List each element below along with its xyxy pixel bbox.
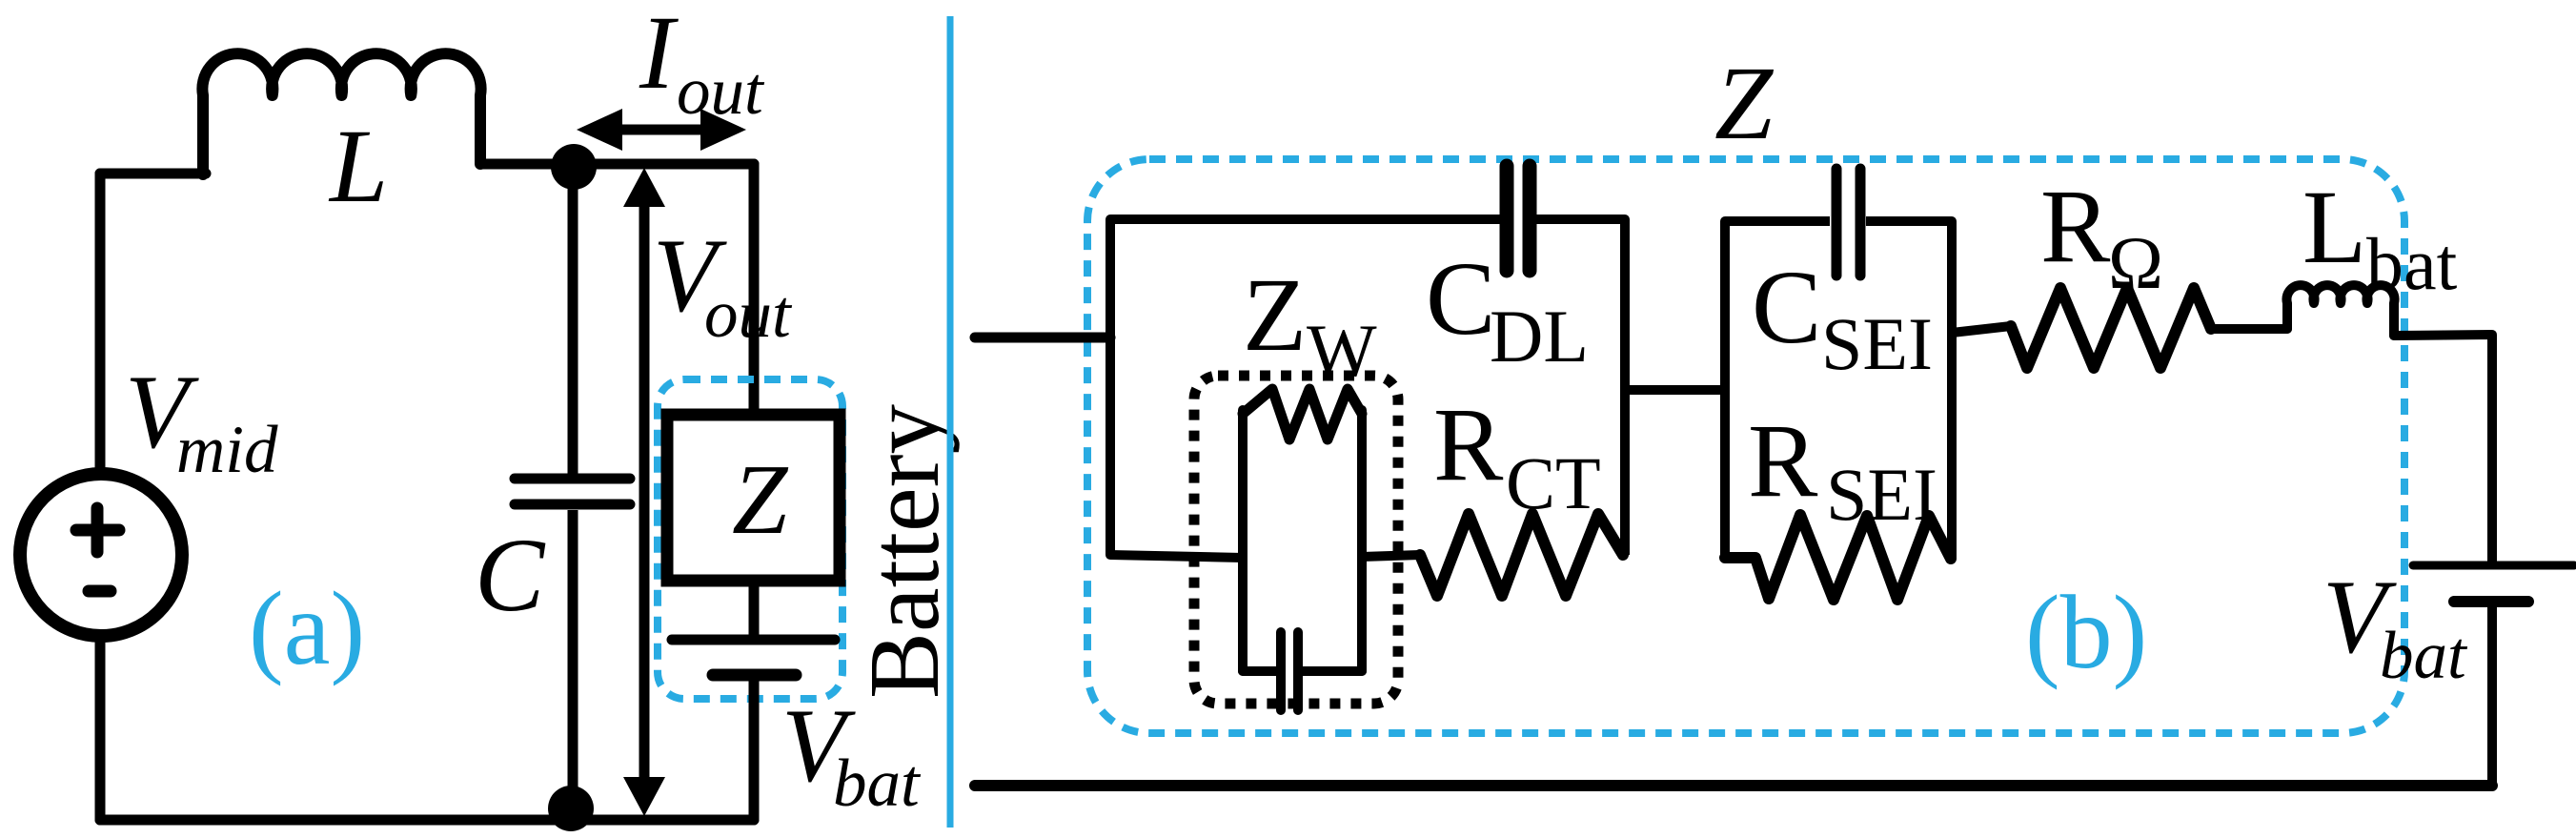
svg-text:bat: bat xyxy=(2380,619,2468,693)
Zw right rail xyxy=(1357,410,1367,671)
battery V_bat short plate (b) xyxy=(2454,596,2528,607)
impedance dashed outline box (b) xyxy=(1087,159,2404,733)
svg-text:out: out xyxy=(677,54,765,129)
wire right branch upper xyxy=(749,164,760,415)
wire top right section1 xyxy=(1536,219,1625,555)
resistor R_SEI zigzag xyxy=(1725,515,1951,600)
battery V_bat long plate (b) xyxy=(2413,562,2574,570)
Zw resistor zigzag xyxy=(1243,389,1362,439)
wire capacitor branch upper xyxy=(568,167,578,474)
wire bottom horizontal xyxy=(100,815,754,826)
svg-text:SEI: SEI xyxy=(1821,302,1933,385)
wire top right section2 xyxy=(1866,221,1952,559)
inductor L xyxy=(202,53,480,174)
wire Lbat to right corner xyxy=(2394,335,2492,562)
minus sign xyxy=(89,585,111,598)
svg-text:bat: bat xyxy=(2366,222,2458,305)
wire Romega to Lbat xyxy=(2211,324,2287,334)
wire top-left horizontal xyxy=(100,169,206,179)
wire bottom section1 to Zw xyxy=(1110,555,1243,558)
svg-text:bat: bat xyxy=(833,746,922,821)
svg-text:CT: CT xyxy=(1506,441,1601,524)
wire left terminal stub xyxy=(975,333,1110,343)
wire Z box to battery xyxy=(749,581,760,635)
svg-text:(a): (a) xyxy=(249,570,365,686)
svg-text:I: I xyxy=(639,0,679,111)
wire middle connector xyxy=(1625,385,1725,395)
voltage source V_mid circle xyxy=(20,474,182,636)
battery short plate (a) xyxy=(713,669,796,682)
wire left bus section2 xyxy=(1725,221,1830,559)
wire top right horizontal xyxy=(480,159,754,170)
svg-text:W: W xyxy=(1307,309,1377,392)
wire left vertical lower xyxy=(95,637,106,820)
svg-text:C: C xyxy=(1752,249,1821,365)
wire left bus section1 xyxy=(1110,219,1502,555)
wire battery down (b) xyxy=(2487,607,2497,786)
svg-text:mid: mid xyxy=(176,413,278,487)
Zw bottom wire left xyxy=(1243,666,1276,676)
svg-text:C: C xyxy=(475,517,546,633)
svg-text:L: L xyxy=(2302,169,2366,285)
arrow V_out (vertical double arrow) xyxy=(623,168,665,816)
wire Zw to Rct xyxy=(1362,555,1420,557)
inductor L_bat xyxy=(2287,285,2395,336)
capacitor C_SEI plates xyxy=(1836,169,1860,276)
svg-text:DL: DL xyxy=(1490,295,1589,378)
battery long plate (a) xyxy=(672,635,835,645)
svg-text:Z: Z xyxy=(1243,256,1307,373)
Zw capacitor plates xyxy=(1281,632,1298,710)
wire left vertical upper xyxy=(95,174,106,473)
svg-text:L: L xyxy=(328,108,388,224)
svg-text:R: R xyxy=(1748,402,1818,519)
battery dashed outline box (a) xyxy=(658,379,842,699)
Zw left rail xyxy=(1238,410,1247,671)
Zw bottom wire right xyxy=(1303,666,1362,676)
svg-text:Z: Z xyxy=(1714,45,1775,161)
divider line xyxy=(947,16,954,828)
svg-text:R: R xyxy=(1433,386,1504,502)
capacitor C plates xyxy=(515,479,630,504)
arrow I_out xyxy=(577,109,746,151)
node top junction dot xyxy=(551,144,597,190)
impedance box Z xyxy=(667,415,840,581)
svg-text:Battery: Battery xyxy=(848,403,960,699)
svg-text:Ω: Ω xyxy=(2108,221,2163,304)
svg-text:Z: Z xyxy=(732,443,789,555)
wire section2 to Romega xyxy=(1952,326,2011,333)
plus sign xyxy=(76,508,119,552)
node bottom junction dot xyxy=(548,786,594,831)
wire capacitor branch lower xyxy=(568,510,578,808)
svg-text:SEI: SEI xyxy=(1826,453,1937,536)
svg-text:R: R xyxy=(2040,168,2111,284)
Warburg dotted box xyxy=(1194,376,1398,704)
svg-text:(b): (b) xyxy=(2025,574,2147,690)
resistor R_CT zigzag xyxy=(1420,514,1623,596)
wire battery to bottom xyxy=(749,681,760,820)
resistor R_omega zigzag xyxy=(2011,288,2211,368)
svg-text:C: C xyxy=(1426,240,1495,357)
capacitor C_DL plates xyxy=(1507,166,1530,271)
wire bottom return (b) xyxy=(975,780,2492,791)
